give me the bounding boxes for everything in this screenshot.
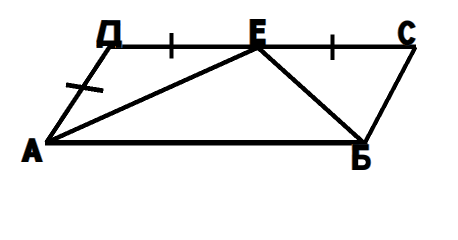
tick mark on segment E-C (331, 34, 335, 60)
labels main black copy (22, 20, 413, 170)
ClearType-style fringe: blue right copy (23, 20, 414, 170)
wire left side A-D (46, 47, 109, 143)
tick mark on side A-D (66, 85, 103, 91)
wire diagonal A-E (46, 47, 258, 142)
wire top side D-C (108, 45, 416, 50)
tick mark on segment D-E (169, 33, 173, 59)
ClearType-style fringe: orange left copy (21, 20, 412, 170)
counter hole of label B (358, 159, 366, 165)
wire diagonal E-B (259, 49, 365, 144)
wire right side B-C (365, 47, 416, 144)
wire bottom side A-B (45, 140, 368, 146)
